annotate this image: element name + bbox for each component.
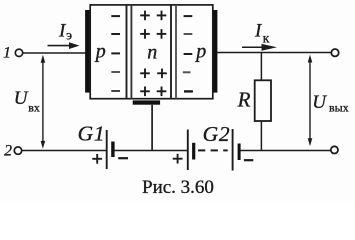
svg-text:э: э [66,27,72,42]
polarity plus G1 [92,154,102,164]
battery G2 cell1 long plate [187,130,189,171]
wire bottom rail: G2 to output terminal [241,150,331,152]
wire terminal1 to emitter [23,52,86,54]
svg-text:U: U [312,92,327,113]
battery G2 cell1 short thick plate [192,143,195,160]
svg-text:G2: G2 [203,122,231,146]
svg-text:к: к [263,31,270,46]
polarity minus G2 [244,159,253,161]
svg-text:n: n [147,42,157,64]
transistor body outline [90,5,213,99]
svg-text:1: 1 [3,45,11,62]
acceptor minus charges, collector p region [183,16,193,91]
voltage arrow U_вых (double headed) [308,55,313,147]
wire resistor to bottom rail [260,121,262,151]
wire base down to bottom rail [151,105,153,151]
battery G2 cell2 long plate [232,129,234,171]
current label I_э [58,20,72,42]
svg-text:R: R [237,87,251,111]
battery G1 short thick plate [111,142,114,158]
label U_вых [312,92,348,115]
wire bottom rail: G1 to G2 [114,150,187,152]
acceptor minus charges, emitter p region [111,16,120,91]
polarity plus G2 [173,154,183,164]
base contact bar [133,100,160,104]
donor plus charges, base n region [140,11,167,97]
resistor R [255,80,271,121]
emitter contact bar [85,10,89,93]
svg-text:Рис. 3.60: Рис. 3.60 [142,177,214,198]
emitter-base junction double line [127,5,132,98]
polarity minus G1 [118,157,128,159]
node output terminal top-right [331,49,338,56]
wire bottom rail: terminal2 to G1 [22,150,106,152]
arrow I_к [242,44,277,51]
current label I_к [254,21,270,46]
svg-text:2: 2 [4,142,12,159]
label U_вх [14,88,40,114]
battery G1 long plate [106,130,108,169]
svg-text:G1: G1 [78,121,106,145]
node 1 (input terminal top-left) [3,45,23,62]
svg-text:вх: вх [28,100,40,114]
battery G2 cell2 short thick plate [238,144,241,161]
wire collector to output terminal [217,52,331,54]
arrow I_э [48,42,80,49]
collector contact bar [213,10,217,93]
svg-text:вых: вых [329,101,349,115]
dashed link between G2 cells [198,149,228,151]
svg-text:p: p [94,40,106,62]
node 2 (input terminal bottom-left) [4,142,21,159]
node output terminal bottom-right [331,146,338,153]
svg-text:p: p [194,40,206,62]
wire collector rail down to resistor [260,53,262,81]
voltage arrow U_вх (double headed) [41,55,46,149]
base-collector junction double line [171,5,176,98]
svg-text:U: U [14,88,29,109]
